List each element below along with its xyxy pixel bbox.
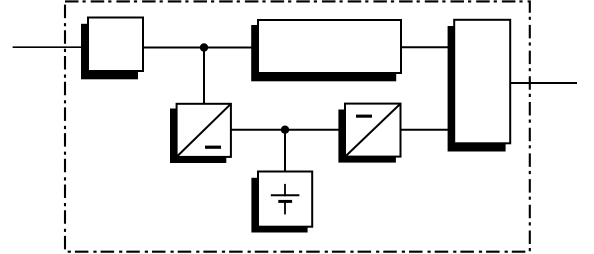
- wire: rectifier output to node B: [231, 129, 344, 131]
- block: input filter (shadowed box): [81, 18, 143, 80]
- wire: bypass output to static switch: [401, 46, 454, 48]
- converter U2: inverter (DC/AC, shadowed box): [338, 104, 400, 163]
- block: bypass line (shadowed box): [251, 20, 401, 81]
- U2 diagonal divider: [346, 105, 399, 156]
- BT1 negative plate (short): [278, 200, 292, 203]
- wire: node B down to battery: [284, 130, 286, 172]
- node B (junction): [281, 126, 289, 134]
- BT1 bottom lead: [284, 203, 286, 215]
- wire: filter output to node A: [143, 47, 258, 49]
- U1 diagonal divider: [178, 105, 230, 156]
- converter U1: rectifier/charger (AC/DC, shadowed box): [170, 104, 231, 163]
- wire: node A down to rectifier input: [203, 48, 205, 105]
- BT1 positive plate (long): [271, 194, 300, 196]
- node A (junction): [200, 43, 208, 51]
- wire: AC output line: [511, 82, 578, 84]
- battery BT1 (shadowed box): [251, 172, 312, 233]
- block: static transfer switch (tall shadowed box): [448, 20, 511, 152]
- BT1 top lead: [284, 184, 286, 196]
- U2 DC-side minus label: [356, 115, 372, 118]
- wire: AC input line: [13, 46, 87, 48]
- UPS enclosure boundary (dash-dot frame): [65, 1, 530, 251]
- U1 DC-side minus label: [205, 146, 221, 149]
- wire: inverter output to static switch: [401, 129, 454, 131]
